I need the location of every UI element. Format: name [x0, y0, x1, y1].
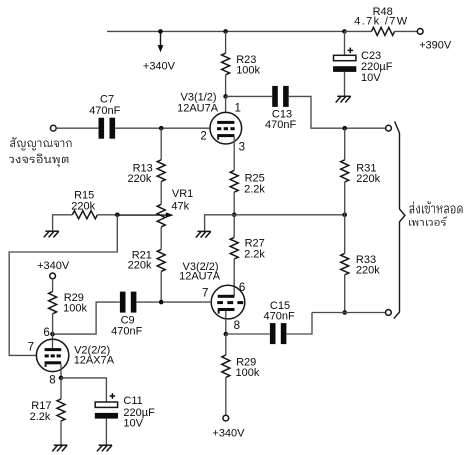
ground R17 [54, 444, 67, 446]
wire R13 to VR1 [160, 182, 162, 205]
wire C11 ground lead [105, 419, 107, 446]
svg-text:470nF: 470nF [111, 326, 142, 338]
wire output 2 row [312, 312, 386, 314]
svg-text:220k: 220k [71, 200, 95, 212]
resistor R29 right [222, 355, 230, 378]
terminal output 1 [386, 125, 392, 131]
wire V2 plate lead [52, 334, 54, 349]
wire C15 to output 2 [287, 313, 312, 335]
wire R29 right bottom lead [225, 378, 227, 416]
svg-text:2: 2 [200, 130, 206, 142]
ground R15 [45, 230, 58, 232]
wire R48 left lead [345, 30, 372, 32]
svg-text:+340V: +340V [37, 260, 70, 272]
svg-text:2.2k: 2.2k [244, 184, 265, 196]
resistor R17 [57, 399, 65, 421]
svg-text:8: 8 [49, 374, 55, 386]
wire +340V to R29 [52, 279, 54, 292]
wire R15 ground lead [53, 215, 73, 231]
node C9 / R21 junction [159, 300, 164, 305]
svg-text:12AU7A: 12AU7A [177, 102, 219, 114]
node top rail / R23 junction [223, 29, 228, 34]
wire R23 bottom lead [225, 75, 227, 97]
capacitor C11 [95, 402, 117, 407]
tube triode U-V3a V3(1/2) 12AU7A [210, 112, 242, 144]
resistor R48 [372, 27, 395, 35]
resistor R13 [157, 160, 165, 182]
wire V3a cathode lead [233, 136, 235, 170]
wire R17 ground lead [60, 421, 62, 445]
wire V2 cathode lead [60, 364, 62, 378]
svg-text:100k: 100k [236, 367, 260, 379]
terminal input [50, 125, 56, 131]
wire C9 left to pin6 riser [55, 302, 120, 334]
terminal +340V bottom [223, 415, 229, 421]
capacitor C9 [120, 292, 126, 313]
resistor R31 [341, 160, 349, 182]
svg-text:6: 6 [239, 282, 245, 294]
wire R17 top lead [60, 378, 62, 399]
wire mid node to R31/R33 node [234, 214, 345, 216]
node R25/R27 junction [232, 213, 237, 218]
wire C23 top lead [344, 31, 346, 55]
wire R27 top lead [233, 215, 235, 238]
wire R27 to V3b plate [233, 259, 235, 295]
wire mid node to ground [205, 215, 235, 232]
svg-text:C9: C9 [121, 314, 135, 326]
node output 2 / R33 junction [342, 310, 347, 315]
svg-text:2.2k: 2.2k [30, 411, 51, 423]
svg-text:220k: 220k [356, 265, 380, 277]
capacitor C23 [334, 55, 356, 60]
resistor R23 [222, 53, 230, 75]
ground mid [197, 230, 210, 232]
resistor R29 left [49, 292, 57, 314]
capacitor C15 [270, 323, 276, 344]
wire R48 right lead [395, 30, 418, 32]
svg-text:1: 1 [235, 103, 241, 115]
svg-text:10V: 10V [123, 418, 143, 430]
wire R23 top lead [225, 31, 227, 53]
node V2 cathode pin 8 junction [59, 376, 64, 381]
label input Thai line 1 [10, 137, 71, 150]
tube triode U-V3b V3(2/2) 12AU7A [211, 285, 245, 319]
svg-text:10V: 10V [361, 72, 381, 84]
svg-text:+340V: +340V [143, 60, 176, 72]
svg-text:VR1: VR1 [172, 188, 193, 200]
wire C9 right to V3b grid [137, 301, 212, 303]
resistor R21 [157, 249, 165, 271]
wire R29 right top lead [225, 334, 227, 355]
wire C13 to output 1 [289, 96, 386, 128]
node top rail / arrow junction [158, 29, 163, 34]
wiper arrow VR1 [117, 214, 166, 216]
wire R33 bottom lead [344, 275, 346, 313]
brace outputs [395, 121, 400, 133]
svg-text:C11: C11 [123, 395, 142, 407]
wire input to C7 [56, 127, 98, 129]
node V3a plate junction [223, 94, 228, 99]
terminal output 2 [386, 310, 392, 316]
svg-text:12AU7A: 12AU7A [179, 271, 221, 283]
wire cathode node to C11 [61, 378, 106, 402]
wire C7 to V3a grid [115, 127, 210, 129]
tube triode U-V2 V2(2/2) 12AX7A [36, 339, 68, 371]
node grid / R13 junction [159, 126, 164, 131]
wire R31 top lead [344, 128, 346, 160]
svg-text:470nF: 470nF [264, 310, 295, 322]
label output Thai line 1 [409, 201, 462, 213]
svg-text:470nF: 470nF [89, 105, 120, 117]
node V3b cathode pin 8 junction [224, 332, 229, 337]
wire cathode node to C15 [226, 333, 270, 335]
svg-text:47k: 47k [171, 201, 189, 213]
ground C11 [99, 444, 112, 446]
svg-text:8: 8 [234, 320, 240, 332]
wire top +340V rail [107, 30, 345, 32]
svg-text:7: 7 [202, 288, 208, 300]
svg-text:6: 6 [43, 327, 49, 339]
terminal +390V [417, 29, 423, 35]
capacitor C7 [99, 118, 105, 139]
wire V3a plate lead [225, 96, 227, 113]
wire R13 top lead [160, 128, 162, 160]
terminal +340V left [50, 273, 56, 279]
ground C23 [337, 95, 350, 97]
resistor R27 [230, 237, 238, 259]
potentiometer VR1 [157, 204, 165, 227]
svg-text:2.2k: 2.2k [244, 248, 265, 260]
wire plate node to C13 [226, 95, 273, 97]
resistor R25 [230, 170, 238, 192]
node output 1 / R31 junction [342, 126, 347, 131]
label input Thai line 2 [9, 154, 68, 167]
svg-text:4.7k /7W: 4.7k /7W [354, 16, 408, 28]
svg-text:220k: 220k [128, 173, 152, 185]
label output Thai line 2 [409, 216, 447, 225]
node top rail / R48 / C23 junction [342, 29, 347, 34]
wire VR1 to R21 [160, 227, 162, 250]
wire R31 bottom lead [344, 182, 346, 215]
resistor R15 [72, 211, 97, 219]
svg-text:+390V: +390V [419, 39, 452, 51]
node R31/R33 junction [342, 213, 347, 218]
wire R15 to wiper node [97, 214, 117, 216]
wire R29 to pin 6 node [52, 314, 54, 334]
svg-text:C23: C23 [361, 50, 381, 62]
wire C23 bottom lead [344, 72, 346, 97]
wire R21 bottom lead [160, 271, 162, 302]
node V2 plate pin 6 junction [50, 332, 55, 337]
wire V3b cathode lead [225, 311, 227, 334]
capacitor C13 [272, 86, 278, 107]
wire R33 top lead [344, 215, 346, 254]
svg-text:100k: 100k [63, 302, 87, 314]
svg-text:12AX7A: 12AX7A [74, 355, 115, 367]
svg-text:220k: 220k [128, 260, 152, 272]
svg-text:220k: 220k [356, 173, 380, 185]
svg-text:470nF: 470nF [265, 119, 296, 131]
svg-text:100k: 100k [236, 64, 260, 76]
node wiper / feedback junction [115, 213, 120, 218]
power +340V top arrow [160, 31, 162, 45]
wire feedback to V2 grid [9, 215, 117, 356]
svg-text:7: 7 [28, 341, 34, 353]
wire R25 bottom lead [233, 192, 235, 215]
svg-text:3: 3 [239, 142, 245, 154]
svg-text:C7: C7 [100, 94, 114, 106]
resistor R33 [341, 253, 349, 274]
svg-text:+340V: +340V [212, 427, 245, 439]
